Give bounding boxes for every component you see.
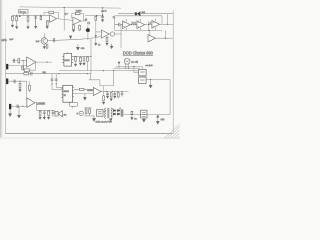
arrow node (110, 44, 113, 49)
wire (114, 67, 140, 69)
resistor R7 (73, 24, 75, 26)
capacitor C16 (106, 92, 109, 96)
IC U5 MN3007 (63, 85, 73, 102)
arrow node (156, 115, 159, 124)
capacitor C14 (55, 79, 58, 80)
node junction (148, 30, 149, 31)
resistor R23 (19, 81, 21, 83)
resistor R4 (47, 19, 49, 22)
rail wire (51, 74, 53, 90)
switch box S1 (139, 69, 146, 76)
wire (148, 21, 150, 30)
ground (106, 96, 109, 99)
wire (11, 105, 27, 107)
capacitor C20 (14, 80, 15, 84)
op-amp U1b (73, 17, 81, 24)
feedback resistor R6 (72, 13, 76, 18)
connector box (69, 102, 78, 106)
node junction (96, 15, 97, 16)
ground (92, 116, 95, 122)
resistor R2 (16, 15, 18, 16)
node junction (27, 15, 28, 16)
scan edge left band (0, 0, 1, 139)
ground (82, 63, 85, 66)
svg-text:MN30: MN30 (64, 91, 69, 93)
speaker symbol (135, 12, 137, 15)
LED D1 (124, 58, 130, 64)
capacitor C17 (114, 92, 117, 96)
wire (56, 87, 63, 89)
frame right border (172, 11, 174, 134)
speaker line (118, 13, 135, 15)
rail wire (63, 7, 65, 30)
diode D5 (117, 113, 119, 115)
title underline (123, 55, 153, 57)
chorus block bottom wire (115, 29, 162, 31)
resistor R3 (27, 15, 29, 16)
node junction (113, 70, 114, 71)
svg-text:(4v): (4v) (161, 119, 165, 121)
capacitor C7 (101, 11, 104, 12)
svg-text:DOD chorus PSU: DOD chorus PSU (96, 120, 113, 123)
chorus block top wire (115, 15, 162, 17)
capacitor C8 (101, 16, 104, 17)
node junction (167, 24, 168, 25)
diode D2 (113, 109, 115, 111)
capacitor C19 (13, 59, 14, 63)
long mid wire 2 (5, 73, 91, 75)
rail wire (120, 25, 122, 48)
feedback resistor R5 (44, 12, 49, 15)
ground (39, 117, 42, 120)
diode D4 (117, 109, 119, 111)
op-amp U3c (152, 21, 160, 29)
speaker SP1 (54, 110, 56, 113)
resistor R13 (75, 55, 77, 58)
jack J1 (6, 64, 8, 69)
node junction (102, 7, 103, 8)
bias wire (85, 15, 103, 17)
capacitor C10 (130, 22, 133, 25)
buffer circle (109, 33, 110, 35)
svg-text:4v: 4v (104, 10, 106, 12)
wire (146, 79, 170, 81)
ground (9, 109, 12, 116)
IC U4 MN3101 (64, 53, 72, 66)
wire (52, 89, 63, 91)
svg-text:(on off): (on off) (131, 61, 138, 63)
rail wire (102, 8, 104, 20)
svg-text:u4558: u4558 (87, 90, 93, 92)
node junction (40, 15, 41, 16)
ground (102, 102, 105, 105)
input wire preamp (12, 60, 26, 62)
resistor R19 (117, 92, 119, 93)
wire (113, 71, 115, 86)
node junction (46, 62, 47, 63)
resistor R25 (48, 109, 50, 112)
V+ supply rail (20, 7, 122, 8)
node junction (128, 68, 129, 69)
scan edge bottom band (0, 137, 180, 139)
capacitor C12 (31, 72, 32, 76)
wire (84, 115, 94, 117)
ground (11, 25, 14, 28)
node junction (58, 73, 59, 74)
node junction (90, 56, 91, 57)
zener D6 (131, 110, 133, 112)
transformer T1 secondary (111, 108, 112, 118)
ground (110, 98, 113, 101)
node junction (56, 83, 57, 84)
node junction (125, 68, 126, 69)
op-amp U6a (93, 88, 101, 96)
ground (17, 106, 20, 118)
feedback wire (100, 86, 114, 92)
node junction (23, 60, 24, 61)
feedback resistor R22 (23, 61, 24, 70)
wire (156, 37, 173, 39)
wire (74, 88, 93, 90)
resistor R12 (24, 72, 29, 75)
ground (26, 26, 29, 29)
node junction (87, 73, 88, 74)
wire (160, 23, 174, 25)
node junction (102, 15, 103, 16)
node junction (16, 15, 17, 16)
op-amp U2a (101, 30, 109, 38)
long mid wire (59, 70, 139, 72)
capacitor C6 (87, 22, 90, 25)
wire (140, 13, 173, 15)
transistor Q2 (41, 38, 47, 44)
svg-text:+: + (76, 112, 78, 116)
wire (134, 67, 139, 73)
wire (36, 61, 52, 63)
capacitor C23 (52, 110, 55, 116)
rail wire (26, 81, 28, 100)
capacitor C15 (83, 56, 86, 63)
wire (22, 13, 24, 15)
node junction (19, 81, 20, 82)
frame left border (4, 38, 6, 134)
ground (79, 63, 82, 66)
diode D3 (113, 113, 115, 115)
rail wire (90, 39, 92, 74)
transformer T1 primary (103, 111, 106, 113)
resistor R18 (110, 92, 112, 93)
ground (105, 43, 108, 46)
wire (74, 93, 93, 95)
arrow node (83, 94, 86, 101)
node junction (106, 91, 107, 92)
wire (90, 74, 92, 80)
DC socket (141, 110, 147, 118)
wire (145, 24, 152, 26)
ground (46, 26, 49, 29)
capacitor C1 (19, 16, 21, 18)
svg-text:DOD Chorus 690: DOD Chorus 690 (123, 50, 153, 55)
resistor R8 (79, 24, 81, 25)
node junction (165, 38, 166, 39)
capacitor C25 (150, 22, 151, 23)
node junction (148, 24, 149, 25)
wire (57, 19, 73, 21)
resistor R15 (87, 55, 89, 58)
resistor R24 (39, 109, 41, 112)
ground (74, 64, 77, 67)
potentiometer VR1 (28, 81, 30, 85)
resistor R16 (79, 88, 84, 90)
arrow node (94, 43, 97, 46)
capacitor C2 (34, 15, 37, 26)
resistor R20 (18, 59, 20, 63)
op-amp U3d (149, 30, 151, 35)
op-amp U8 LM386 (27, 98, 35, 107)
resistor R11 (115, 23, 123, 27)
jack J2 (6, 79, 8, 85)
label box 5V regulator (19, 9, 28, 13)
capacitor C21 (17, 105, 18, 109)
ground (149, 80, 152, 89)
capacitor C11 (133, 22, 137, 25)
wire (116, 67, 142, 70)
node junction (52, 83, 53, 84)
ground (47, 117, 50, 120)
node junction (133, 66, 134, 67)
ground (18, 89, 21, 92)
svg-text:sw dpdt: sw dpdt (146, 64, 153, 67)
svg-text:mPn: mPn (1, 38, 7, 42)
wire (167, 14, 169, 25)
capacitor C13 (51, 79, 54, 80)
switch box S2 (139, 77, 146, 84)
wire input bus (12, 14, 49, 16)
transistor Q1 (86, 28, 90, 32)
wire (164, 30, 166, 38)
resistor R10 (106, 35, 108, 38)
wire (169, 80, 171, 115)
resistor R27 (89, 108, 91, 109)
resistor R9 (95, 16, 97, 20)
wire (89, 80, 100, 86)
svg-text:TL072: TL072 (76, 11, 83, 13)
ground (113, 96, 116, 99)
AC socket (97, 110, 103, 117)
resistor R14 (80, 56, 82, 57)
node junction (64, 7, 65, 8)
op-amp U7 (27, 57, 36, 67)
resistor R17 (103, 92, 105, 96)
ground (142, 118, 145, 122)
ground (43, 46, 46, 49)
signal wire from Q1 (48, 36, 102, 41)
capacitor C22 (43, 110, 46, 117)
resistor R28 (46, 45, 48, 49)
svg-text:LM386N: LM386N (36, 104, 45, 106)
output wire (101, 91, 128, 93)
arrow node (76, 44, 79, 50)
node junction (103, 70, 104, 71)
wire (8, 65, 26, 67)
svg-text:07: 07 (64, 95, 66, 97)
ground (101, 19, 104, 22)
node junction (150, 79, 151, 80)
capacitor C9 (54, 38, 55, 42)
ground (109, 119, 112, 122)
node junction (117, 91, 118, 92)
arrow node (95, 35, 97, 37)
ground (72, 30, 75, 33)
ground (130, 117, 133, 120)
svg-text:2nF: 2nF (9, 39, 13, 41)
wire (95, 20, 97, 43)
ground (43, 117, 46, 120)
wire (73, 55, 91, 57)
svg-text:MN31: MN31 (65, 60, 70, 62)
capacitor C5 (84, 18, 87, 21)
capacitor C24 electrolytic (121, 109, 123, 116)
op-amp U1a (50, 15, 57, 22)
arrow node (118, 62, 121, 65)
transformer core (108, 108, 109, 118)
wire (8, 80, 26, 82)
jack J3 (9, 104, 11, 109)
svg-text:5v: 5v (98, 45, 100, 47)
op-amp U3a (123, 21, 131, 29)
capacitor C4 (64, 13, 68, 16)
wire (124, 114, 171, 116)
resistor R21 (22, 66, 24, 70)
wire (35, 103, 55, 111)
node junction (112, 91, 113, 92)
wire (96, 31, 102, 33)
resistor R1 (11, 14, 13, 17)
svg-text:4Ω: 4Ω (63, 114, 66, 116)
capacitor C3 (40, 15, 42, 16)
wire (111, 107, 114, 109)
wire (141, 76, 143, 77)
ground (15, 26, 18, 29)
arrow node (69, 36, 72, 40)
wire (114, 16, 116, 31)
ground (34, 26, 37, 29)
wire (81, 20, 86, 22)
node junction (22, 106, 23, 107)
resistor R26 (84, 107, 91, 109)
capacitor C18 (121, 92, 124, 97)
page corner hatch (164, 124, 180, 139)
rail wire (55, 74, 57, 88)
wire (161, 16, 163, 24)
op-amp U3b (137, 21, 145, 29)
svg-text:5v reg: 5v reg (20, 10, 27, 13)
frame bottom border (5, 133, 173, 135)
node junction (121, 91, 122, 92)
